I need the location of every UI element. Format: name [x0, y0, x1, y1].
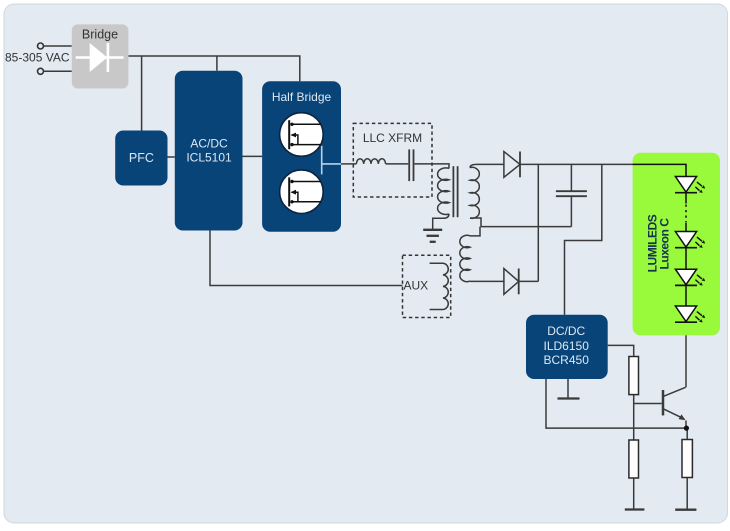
svg-text:PFC: PFC [129, 151, 154, 165]
svg-text:AUX: AUX [404, 279, 429, 293]
svg-text:ICL5101: ICL5101 [186, 150, 232, 164]
svg-text:Bridge: Bridge [82, 27, 118, 41]
svg-text:85-305 VAC: 85-305 VAC [5, 51, 70, 65]
svg-text:Half Bridge: Half Bridge [272, 90, 332, 104]
svg-text:BCR450: BCR450 [544, 353, 590, 367]
svg-text:LLC XFRM: LLC XFRM [363, 131, 422, 145]
svg-text:Luxeon C: Luxeon C [657, 218, 671, 270]
svg-text:AC/DC: AC/DC [190, 137, 228, 151]
svg-text:DC/DC: DC/DC [547, 324, 585, 338]
svg-text:ILD6150: ILD6150 [544, 339, 590, 353]
